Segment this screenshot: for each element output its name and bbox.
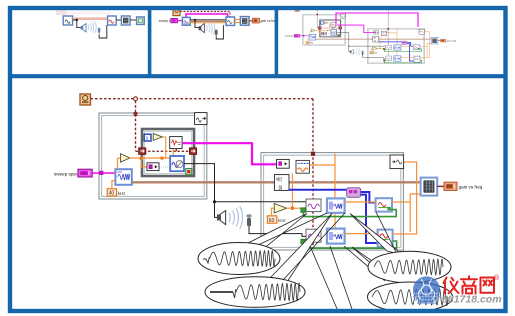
wire: magenta over top xyxy=(186,14,228,17)
ghost highlight xyxy=(56,10,67,16)
chirp display block R9 xyxy=(327,229,345,244)
iteration terminal i xyxy=(144,134,151,142)
wire: to speaker xyxy=(77,20,81,28)
while-loop frame (right) xyxy=(261,153,403,250)
generator block P1A xyxy=(63,16,72,25)
wire: audio waveform (brown thick) xyxy=(132,181,421,183)
wire: light red waveform xyxy=(73,17,108,20)
wire: orange drop to sample block xyxy=(141,160,147,167)
watermark logo globe xyxy=(413,276,440,303)
chirp pattern block xyxy=(115,169,131,185)
svg-text:40: 40 xyxy=(109,191,115,197)
panel3: mini copy of main diagram xyxy=(285,7,456,63)
svg-text:gain vs freq: gain vs freq xyxy=(260,19,277,23)
graph block P1B xyxy=(108,16,117,25)
svg-text:x[i]: x[i] xyxy=(276,176,282,181)
callout wedge to ellipse3 xyxy=(350,214,403,256)
scaling block R1 xyxy=(277,159,290,168)
control: sweep spec (pink) xyxy=(78,169,92,177)
ellipse 1 (chirp preview) xyxy=(198,243,280,275)
junction open circle xyxy=(134,97,138,101)
svg-text:kHz: kHz xyxy=(278,218,286,223)
green terminal row2 xyxy=(301,239,306,244)
wire: green loop row1 xyxy=(303,210,396,217)
mic icon small xyxy=(98,28,101,35)
green terminal row1 xyxy=(301,208,306,213)
svg-text:sweep spec: sweep spec xyxy=(54,172,79,177)
index array block R3 xyxy=(274,175,289,191)
wire: waveform (magenta thick) xyxy=(182,143,277,164)
spectral block R5 xyxy=(306,199,321,212)
metronome small xyxy=(173,8,180,16)
sample-info block xyxy=(147,163,159,171)
XY block small xyxy=(240,17,249,26)
dotted link xyxy=(159,166,170,168)
wire: ms-timing dashed (horizontal) xyxy=(91,98,314,100)
indicator small xyxy=(252,18,259,23)
svg-text:881718.com: 881718.com xyxy=(442,294,502,306)
for-loop frame (inner) xyxy=(142,129,194,176)
svg-text:®: ® xyxy=(494,274,500,282)
wire: orange from i-triangle xyxy=(162,137,173,158)
out block P1D xyxy=(137,17,145,24)
wire: XY to indicator (dark red) xyxy=(437,185,444,187)
wire: mic to analyzer (black) xyxy=(249,229,306,236)
constant: 40 kHz xyxy=(107,189,125,197)
svg-text:kHz: kHz xyxy=(118,191,126,196)
wire: dashed drop into left loop xyxy=(135,101,137,151)
cluster block R4 xyxy=(347,188,361,198)
XY block P1C xyxy=(121,16,130,25)
increment triangle xyxy=(153,133,162,140)
shift register (right) xyxy=(189,148,196,155)
analyzer block small xyxy=(226,17,235,25)
tone analyzer block R2 xyxy=(296,160,309,173)
svg-text:60: 60 xyxy=(269,218,275,224)
formula waveform block xyxy=(170,137,182,149)
wire: sweep spec to chirp gen (magenta) xyxy=(92,172,115,174)
chirp block small xyxy=(182,17,190,25)
indicator: gain vs freq xyxy=(444,182,457,190)
indexing tunnel block xyxy=(195,113,207,125)
wire: orange into loop xyxy=(130,157,170,159)
callout wedge to ellipse4 xyxy=(352,247,406,285)
gain triangle (outer) xyxy=(118,158,121,169)
speaker icon xyxy=(217,211,226,225)
speaker small xyxy=(195,20,199,28)
wire: orange out of R2 xyxy=(309,154,335,229)
stop button xyxy=(186,169,192,175)
wire: orange row1 across xyxy=(345,194,421,232)
wire: 40kHz to chirp block (orange) xyxy=(112,181,116,189)
wire: orange R2 bottom drop xyxy=(291,173,293,208)
wire: mic to graph xyxy=(99,25,107,38)
arcs small xyxy=(88,21,96,34)
tunnel on right frame top xyxy=(311,152,315,156)
loop tunnel block R11 xyxy=(390,155,404,169)
filter block R7 xyxy=(376,198,392,211)
ellipse 4 (response chirp 2) xyxy=(368,282,453,312)
simulate/sine block xyxy=(170,156,184,171)
wire: green loop row2 xyxy=(303,241,396,248)
spectral block R8 xyxy=(306,229,321,242)
divider vertical 1 xyxy=(148,6,152,76)
divider horizontal xyxy=(8,74,506,78)
speaker icon small xyxy=(81,24,86,32)
constant: 60 kHz xyxy=(267,216,285,224)
watermark chinese glyphs (drawn) xyxy=(444,276,495,293)
wire: blue to R7 xyxy=(361,192,376,203)
ellipse 2 (delayed chirp) xyxy=(205,277,305,308)
svg-text:[i]: [i] xyxy=(279,185,282,190)
microphone icon xyxy=(246,214,251,229)
wire: dashed shift-register link xyxy=(136,149,190,152)
callout lines xyxy=(258,212,396,311)
wire: blue array out xyxy=(289,189,347,191)
sound arcs xyxy=(229,206,243,228)
chirp display block R6 xyxy=(327,198,345,212)
callout wedge to ellipse1 xyxy=(249,214,307,248)
wire: dashed drop into right loop xyxy=(312,99,314,248)
svg-text:40 H: 40 H xyxy=(184,21,190,25)
mic small xyxy=(215,30,218,37)
tunnel on left frame top xyxy=(134,112,138,116)
callout wedge to ellipse2 xyxy=(271,214,332,283)
wire: orange triangle out xyxy=(287,207,306,209)
wire: to speaker/right loop (black) xyxy=(184,164,306,202)
gain triangle (right loop) xyxy=(271,208,274,216)
filter block R10 xyxy=(378,230,393,247)
tunnel: magenta on frame xyxy=(99,171,103,175)
control small pink xyxy=(171,18,178,22)
svg-text:gain vs freq: gain vs freq xyxy=(459,185,483,190)
metronome (wait ms) block xyxy=(80,94,91,105)
wire: blue to R10 xyxy=(361,195,378,243)
while-loop frame (left) xyxy=(99,113,207,199)
shift register (left) xyxy=(139,148,146,155)
build XY graph block xyxy=(421,178,438,196)
wire: mini magenta top run xyxy=(336,13,418,27)
wires to E xyxy=(190,19,226,21)
wire: dashed ms small xyxy=(180,12,230,18)
wire: orange row2 across xyxy=(345,162,417,234)
ellipse 3 (response chirp) xyxy=(368,251,451,283)
divider vertical 2 xyxy=(275,6,279,76)
wires orange to H xyxy=(235,20,241,23)
